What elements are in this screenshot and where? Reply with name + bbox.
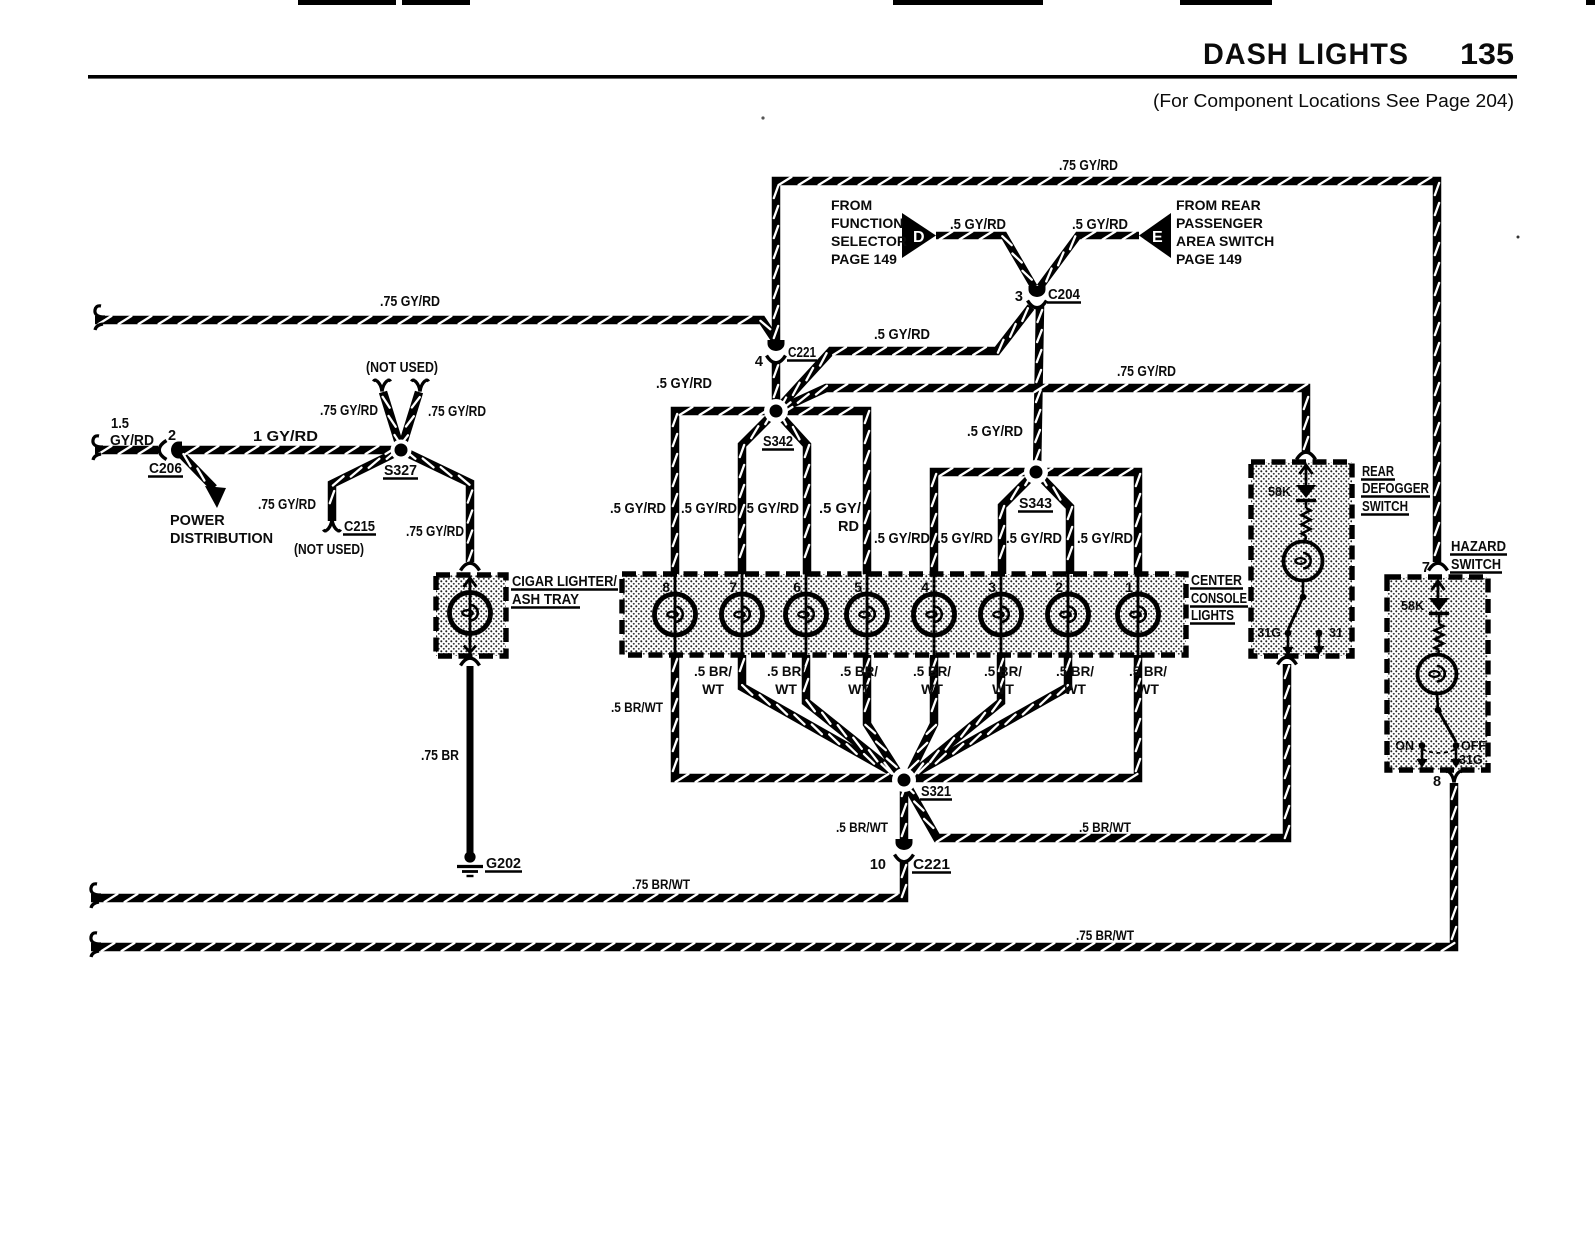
svg-text:SWITCH: SWITCH: [1451, 557, 1501, 573]
svg-text:.5 GY/RD: .5 GY/RD: [681, 501, 737, 517]
svg-text:GY/RD: GY/RD: [110, 433, 154, 449]
svg-text:4: 4: [755, 354, 763, 370]
svg-text:.5 BR/: .5 BR/: [984, 663, 1022, 679]
svg-text:.5 GY/RD: .5 GY/RD: [950, 217, 1006, 233]
svg-text:.75 GY/RD: .75 GY/RD: [428, 404, 486, 420]
svg-text:58K: 58K: [1401, 599, 1424, 613]
svg-text:2: 2: [168, 428, 176, 444]
svg-text:1: 1: [1125, 579, 1133, 595]
svg-text:ON: ON: [1395, 739, 1414, 753]
svg-text:.5 BR/: .5 BR/: [694, 663, 732, 679]
svg-text:.5 BR/: .5 BR/: [1129, 663, 1167, 679]
svg-text:ASH TRAY: ASH TRAY: [512, 592, 579, 608]
svg-text:58K: 58K: [1268, 485, 1291, 499]
svg-text:C221: C221: [788, 345, 816, 361]
svg-text:.5 GY/: .5 GY/: [819, 501, 861, 517]
svg-text:.5 BR/: .5 BR/: [840, 663, 878, 679]
svg-text:RD: RD: [838, 519, 859, 535]
svg-text:(NOT USED): (NOT USED): [366, 360, 438, 376]
svg-text:CONSOLE: CONSOLE: [1191, 591, 1247, 607]
svg-text:1 GY/RD: 1 GY/RD: [253, 429, 318, 445]
svg-text:.75 GY/RD: .75 GY/RD: [320, 403, 378, 419]
svg-text:.5 GY/RD: .5 GY/RD: [874, 531, 930, 547]
svg-text:.5 BR/WT: .5 BR/WT: [611, 700, 664, 715]
svg-text:C215: C215: [344, 519, 375, 535]
svg-text:DASH LIGHTS: DASH LIGHTS: [1203, 38, 1409, 71]
svg-text:8: 8: [1433, 774, 1441, 790]
svg-text:.75 BR/WT: .75 BR/WT: [632, 877, 691, 892]
svg-text:7: 7: [729, 579, 737, 595]
svg-text:.75 GY/RD: .75 GY/RD: [380, 294, 440, 310]
svg-text:PASSENGER: PASSENGER: [1176, 215, 1263, 231]
svg-text:(NOT USED): (NOT USED): [294, 542, 364, 558]
svg-text:31G: 31G: [1257, 626, 1281, 640]
svg-text:6: 6: [793, 579, 801, 595]
svg-text:S343: S343: [1019, 496, 1052, 512]
svg-text:.5 BR/: .5 BR/: [1056, 663, 1094, 679]
svg-text:E: E: [1152, 229, 1163, 246]
svg-text:S327: S327: [384, 463, 417, 479]
svg-text:C206: C206: [149, 461, 182, 477]
svg-text:G202: G202: [486, 856, 521, 872]
svg-text:POWER: POWER: [170, 513, 225, 529]
svg-text:.5 GY/RD: .5 GY/RD: [743, 501, 799, 517]
svg-text:.75 GY/RD: .75 GY/RD: [1117, 364, 1176, 380]
svg-text:WT: WT: [992, 681, 1014, 697]
svg-text:(For Component Locations See P: (For Component Locations See Page 204): [1153, 90, 1514, 111]
svg-text:REAR: REAR: [1362, 464, 1394, 480]
svg-text:.5 BR/: .5 BR/: [913, 663, 951, 679]
svg-text:.5 GY/RD: .5 GY/RD: [656, 376, 712, 392]
svg-text:WT: WT: [1137, 681, 1159, 697]
svg-text:PAGE 149: PAGE 149: [831, 251, 897, 267]
svg-text:WT: WT: [848, 681, 870, 697]
svg-text:OFF: OFF: [1461, 739, 1486, 753]
svg-text:WT: WT: [775, 681, 797, 697]
svg-text:.5 BR/WT: .5 BR/WT: [1079, 820, 1132, 835]
svg-text:PAGE 149: PAGE 149: [1176, 251, 1242, 267]
svg-text:3: 3: [1015, 289, 1023, 305]
svg-text:S342: S342: [763, 434, 793, 450]
svg-text:.5 GY/RD: .5 GY/RD: [610, 501, 666, 517]
svg-text:.5 GY/RD: .5 GY/RD: [1077, 531, 1133, 547]
svg-text:DISTRIBUTION: DISTRIBUTION: [170, 531, 273, 547]
svg-text:.5 GY/RD: .5 GY/RD: [1006, 531, 1062, 547]
svg-text:31: 31: [1329, 626, 1343, 640]
svg-text:.75 BR: .75 BR: [421, 748, 459, 764]
svg-text:.5 GY/RD: .5 GY/RD: [967, 424, 1023, 440]
svg-text:WT: WT: [702, 681, 724, 697]
svg-text:.75 GY/RD: .75 GY/RD: [258, 497, 316, 513]
svg-text:SELECTOR: SELECTOR: [831, 233, 907, 249]
svg-text:FROM REAR: FROM REAR: [1176, 197, 1261, 213]
svg-text:LIGHTS: LIGHTS: [1191, 608, 1234, 624]
svg-text:.5 BR/: .5 BR/: [767, 663, 805, 679]
svg-text:D: D: [913, 229, 925, 246]
svg-text:SWITCH: SWITCH: [1362, 499, 1408, 515]
svg-text:CIGAR LIGHTER/: CIGAR LIGHTER/: [512, 574, 617, 590]
svg-text:.5 GY/RD: .5 GY/RD: [937, 531, 993, 547]
svg-text:CENTER: CENTER: [1191, 573, 1242, 589]
svg-text:WT: WT: [1064, 681, 1086, 697]
svg-text:31G: 31G: [1459, 753, 1483, 767]
svg-text:.75 BR/WT: .75 BR/WT: [1076, 928, 1135, 943]
svg-text:.5 BR/WT: .5 BR/WT: [836, 820, 889, 835]
svg-text:WT: WT: [921, 681, 943, 697]
svg-text:10: 10: [870, 857, 886, 873]
svg-text:3: 3: [988, 579, 996, 595]
svg-text:2: 2: [1055, 579, 1063, 595]
svg-text:HAZARD: HAZARD: [1451, 539, 1506, 555]
svg-text:7: 7: [1422, 560, 1430, 576]
svg-text:.5 GY/RD: .5 GY/RD: [874, 327, 930, 343]
svg-text:.5 GY/RD: .5 GY/RD: [1072, 217, 1128, 233]
svg-text:AREA SWITCH: AREA SWITCH: [1176, 233, 1274, 249]
svg-text:C221: C221: [913, 857, 950, 873]
svg-text:DEFOGGER: DEFOGGER: [1362, 481, 1429, 497]
svg-text:.75 GY/RD: .75 GY/RD: [1059, 158, 1118, 174]
svg-text:FUNCTION: FUNCTION: [831, 215, 903, 231]
svg-text:S321: S321: [921, 784, 951, 800]
svg-text:135: 135: [1460, 38, 1514, 71]
svg-text:C204: C204: [1048, 287, 1080, 303]
svg-text:FROM: FROM: [831, 197, 872, 213]
svg-text:8: 8: [662, 579, 670, 595]
svg-text:4: 4: [921, 579, 929, 595]
svg-text:1.5: 1.5: [111, 416, 129, 432]
svg-text:5: 5: [854, 579, 862, 595]
svg-text:.75 GY/RD: .75 GY/RD: [406, 524, 464, 540]
